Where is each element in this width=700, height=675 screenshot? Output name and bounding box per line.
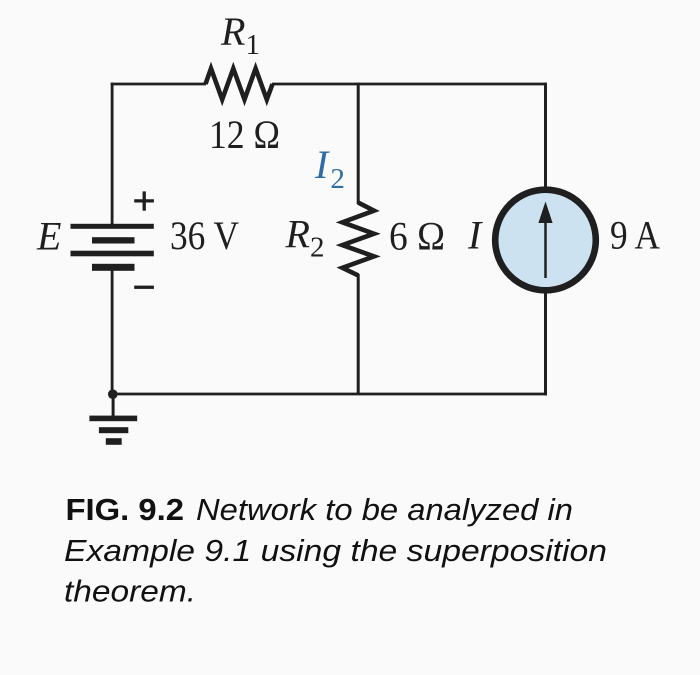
wire left upper vertical: [111, 83, 114, 225]
minus terminal mark: [134, 286, 154, 289]
wire bottom horizontal: [111, 393, 547, 396]
wire right lower vertical: [544, 288, 547, 395]
battery E: [71, 224, 154, 271]
wire middle upper vertical: [357, 83, 360, 204]
wire top-right horizontal: [272, 83, 547, 86]
plus terminal mark: [134, 191, 154, 210]
ground stem wire: [112, 394, 115, 417]
svg-text:E: E: [36, 214, 61, 259]
wire top-left horizontal: [111, 83, 206, 86]
svg-text:Example 9.1 using the superpos: Example 9.1 using the superposition: [64, 534, 607, 568]
svg-text:9 A: 9 A: [610, 213, 660, 258]
wire middle lower vertical: [357, 274, 360, 395]
wire left lower vertical: [111, 270, 114, 395]
svg-text:theorem.: theorem.: [64, 575, 196, 609]
wire right upper vertical: [544, 83, 547, 192]
svg-text:12 Ω: 12 Ω: [209, 112, 280, 157]
svg-text:36 V: 36 V: [170, 213, 239, 258]
resistor R2: [342, 203, 374, 276]
svg-text:6 Ω: 6 Ω: [389, 213, 445, 258]
svg-text:FIG. 9.2Network to be analyzed: FIG. 9.2Network to be analyzed in: [66, 493, 574, 527]
resistor R1: [206, 69, 273, 100]
current source I: [495, 190, 596, 291]
ground: [89, 416, 137, 445]
node junction dot: [108, 389, 118, 399]
svg-text:I: I: [467, 213, 483, 258]
